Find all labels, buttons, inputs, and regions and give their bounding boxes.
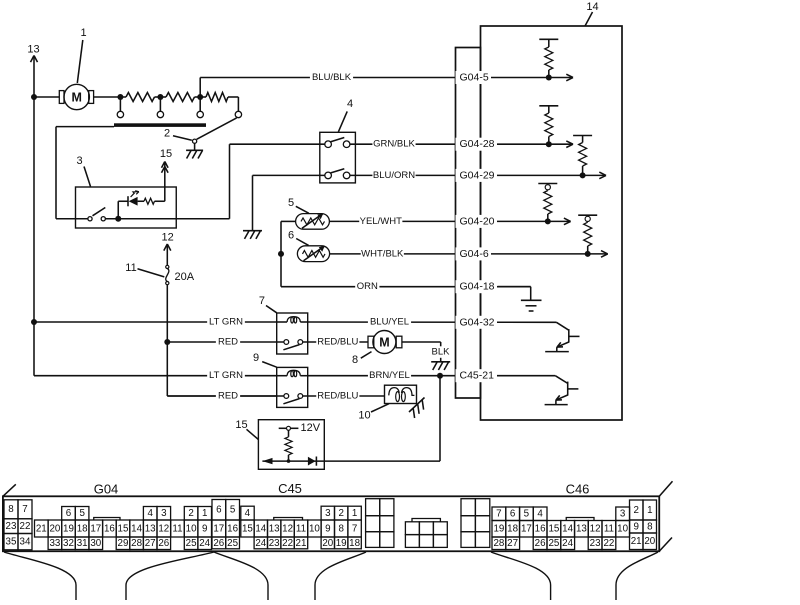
label 1 callout <box>77 40 83 83</box>
LED arrow <box>131 192 139 197</box>
svg-text:RED: RED <box>218 337 238 348</box>
label 9 callout <box>262 362 277 368</box>
junction + arrow (G04-6) <box>585 251 591 257</box>
wire RED/BLU (to solenoid 10) <box>303 395 385 397</box>
svg-text:2: 2 <box>338 508 343 519</box>
svg-text:14: 14 <box>586 1 598 13</box>
svg-text:5: 5 <box>79 508 85 519</box>
switch 4a <box>325 141 332 148</box>
label 14 callout <box>585 12 593 26</box>
label GRN/BLK <box>372 138 415 150</box>
svg-text:15: 15 <box>235 419 247 431</box>
pull-up resistor with contact (G04-20) <box>538 183 557 185</box>
svg-text:16: 16 <box>104 523 115 534</box>
wire - module3 to feed 15 <box>155 200 165 202</box>
svg-text:1: 1 <box>80 27 86 39</box>
junction - module3 <box>115 216 121 222</box>
relay 9 coil <box>287 370 300 375</box>
svg-text:8: 8 <box>8 504 14 515</box>
svg-text:G04-29: G04-29 <box>460 169 495 181</box>
svg-text:2: 2 <box>164 128 170 140</box>
wire - motor1 to resistor chain <box>94 96 126 98</box>
pin label G04-5 <box>456 71 492 84</box>
pin label G04-32 <box>456 316 497 329</box>
tap terminal 1 <box>119 97 121 111</box>
label RED/BLU (upper) <box>316 336 359 348</box>
G04 pin block 8/7/23/22/35/34 <box>4 500 32 550</box>
svg-text:9: 9 <box>253 352 259 364</box>
svg-text:13: 13 <box>145 523 156 534</box>
switch in module 3 <box>88 217 92 221</box>
svg-text:12: 12 <box>161 232 173 244</box>
svg-text:1: 1 <box>352 508 357 519</box>
svg-text:17: 17 <box>90 523 101 534</box>
svg-text:11: 11 <box>125 262 136 274</box>
svg-text:G04-5: G04-5 <box>460 72 489 84</box>
svg-text:G04-28: G04-28 <box>460 138 495 150</box>
svg-text:25: 25 <box>186 538 197 549</box>
svg-text:14: 14 <box>255 523 266 534</box>
svg-text:32: 32 <box>63 538 74 549</box>
junction + arrow (G04-29) <box>580 172 586 178</box>
junction - thermistor 6 <box>278 251 284 257</box>
label ORN <box>355 281 379 293</box>
svg-text:14: 14 <box>131 523 142 534</box>
motor M1 (component 1) <box>64 84 89 109</box>
pin label G04-18 <box>456 280 497 293</box>
wire - left feed vertical <box>33 97 35 322</box>
harness curve C46-left <box>491 552 551 600</box>
wire RED/BLU (to motor 8) <box>303 341 368 343</box>
svg-text:4: 4 <box>537 509 543 520</box>
wire ORN <box>281 286 531 288</box>
selector wiper bar <box>114 123 206 127</box>
solenoid 10 coil <box>389 388 399 396</box>
svg-text:WHT/BLK: WHT/BLK <box>361 248 404 259</box>
svg-text:20: 20 <box>322 538 333 549</box>
connector strip box <box>456 48 481 399</box>
svg-text:7: 7 <box>22 504 27 515</box>
wire - common to thermistor 5 <box>281 220 296 222</box>
svg-text:22: 22 <box>20 521 31 532</box>
svg-text:4: 4 <box>347 98 353 110</box>
wire BLU/BLK <box>199 78 201 98</box>
wire LT GRN (relay7 coil) <box>34 321 277 323</box>
wire - module3 internal <box>105 218 176 220</box>
pull-up resistor with contact (G04-6) <box>578 214 597 216</box>
C45 key tab <box>274 518 303 521</box>
pull-up resistor (G04-29) <box>573 135 592 137</box>
svg-text:1: 1 <box>647 505 652 516</box>
svg-text:13: 13 <box>27 44 39 56</box>
label 6 callout <box>296 239 308 246</box>
svg-text:G04-18: G04-18 <box>460 281 495 293</box>
svg-text:31: 31 <box>77 538 88 549</box>
svg-text:11: 11 <box>604 524 614 535</box>
ground - switch 2 <box>194 143 196 150</box>
svg-text:8: 8 <box>647 521 653 532</box>
svg-text:6: 6 <box>510 509 516 520</box>
wire YEL/WHT <box>329 220 547 222</box>
svg-text:10: 10 <box>309 523 320 534</box>
power feed arrow 15 (module 3) <box>164 162 166 188</box>
svg-text:M: M <box>71 91 81 105</box>
connector face outer box <box>3 496 659 551</box>
wire WHT/BLK <box>330 253 588 255</box>
connector 3D corner bottom-right <box>659 538 672 552</box>
svg-text:20: 20 <box>49 523 60 534</box>
C45 pin row 15-7 <box>241 520 361 537</box>
wire - fuse output vertical <box>166 285 168 342</box>
wire - switch4b to ground <box>253 174 325 176</box>
svg-text:22: 22 <box>603 538 614 549</box>
fuse 11 <box>166 265 169 268</box>
svg-text:23: 23 <box>590 538 601 549</box>
relay 7 switch <box>284 340 289 345</box>
harness curve C46-right <box>616 552 658 600</box>
connector 3D corner top-right <box>659 481 672 496</box>
label BRN/YEL <box>368 370 411 382</box>
svg-text:C45-21: C45-21 <box>460 370 495 382</box>
ECU module box 14 <box>481 26 623 420</box>
ground - solenoid 10 (diagonal) <box>409 398 425 413</box>
svg-text:BLU/YEL: BLU/YEL <box>370 317 409 328</box>
svg-text:17: 17 <box>213 523 224 534</box>
wire - feed to motor1 <box>34 96 59 98</box>
resistor in module 3 <box>138 200 144 202</box>
ground - G04-18 (earth) <box>498 286 531 288</box>
junction - tap2 <box>157 94 163 100</box>
junction - tap3 <box>197 94 203 100</box>
C45 pin block 6/5/17/16/26/25 <box>212 500 240 549</box>
G04 pin row 6-1 <box>62 507 212 521</box>
svg-text:23: 23 <box>6 521 17 532</box>
ground - BLK <box>431 361 450 363</box>
switch 4b <box>325 172 332 179</box>
label 10 callout <box>371 404 389 412</box>
svg-text:13: 13 <box>269 523 280 534</box>
svg-text:BLU/BLK: BLU/BLK <box>312 72 352 83</box>
svg-text:BLK: BLK <box>432 347 451 358</box>
svg-text:3: 3 <box>161 508 167 519</box>
switch 2 blade <box>197 118 237 139</box>
pin label G04-6 <box>456 247 492 260</box>
relay 9 box <box>277 367 308 407</box>
svg-text:RED/BLU: RED/BLU <box>317 391 358 402</box>
svg-text:15: 15 <box>160 148 172 160</box>
svg-text:12V: 12V <box>301 422 321 434</box>
blank middle block key tab <box>412 519 440 522</box>
thermistor 5 (component 5) <box>296 214 330 230</box>
svg-text:10: 10 <box>617 524 628 535</box>
wire RED (relay9) <box>167 395 283 397</box>
svg-text:12: 12 <box>158 523 169 534</box>
svg-text:18: 18 <box>349 538 360 549</box>
svg-text:10: 10 <box>358 410 370 422</box>
wire - motor8 to BLK ground <box>402 341 441 343</box>
svg-text:35: 35 <box>6 537 17 548</box>
harness curve C45-left <box>214 552 268 600</box>
label YEL/WHT <box>359 216 402 228</box>
junction - BRN/YEL to diode box <box>437 373 443 379</box>
svg-text:6: 6 <box>66 508 72 519</box>
svg-text:30: 30 <box>90 538 101 549</box>
blank middle block <box>405 522 447 548</box>
svg-text:15: 15 <box>242 523 253 534</box>
svg-text:RED/BLU: RED/BLU <box>317 337 358 348</box>
svg-text:26: 26 <box>535 538 546 549</box>
label 3 callout <box>84 167 91 187</box>
svg-text:ORN: ORN <box>357 281 378 292</box>
motor M8 (component 8) <box>373 331 396 354</box>
svg-text:19: 19 <box>336 538 347 549</box>
svg-text:5: 5 <box>288 197 294 209</box>
C46 key tab <box>566 518 594 521</box>
wire - chain segments <box>155 96 167 98</box>
svg-text:22: 22 <box>282 538 293 549</box>
LED indicator in module 3 <box>117 201 119 219</box>
svg-text:28: 28 <box>131 538 142 549</box>
svg-text:25: 25 <box>548 538 559 549</box>
svg-text:15: 15 <box>118 523 129 534</box>
wire - box15 output <box>262 460 440 462</box>
svg-text:26: 26 <box>213 538 224 549</box>
svg-text:14: 14 <box>562 524 573 535</box>
label 2 callout <box>173 136 192 141</box>
svg-text:RED: RED <box>218 391 238 402</box>
svg-text:LT GRN: LT GRN <box>209 317 243 328</box>
svg-text:6: 6 <box>216 505 222 516</box>
blank pin block B <box>461 499 490 548</box>
C46 pin row 7/6/5/4/3 <box>492 507 630 521</box>
wire RED (relay7) <box>167 341 283 343</box>
svg-text:1: 1 <box>202 508 207 519</box>
label RED (lower) <box>216 390 240 402</box>
relay 9 switch <box>284 394 289 399</box>
svg-text:10: 10 <box>186 523 197 534</box>
pull-up resistor (G04-5) <box>539 38 558 40</box>
connector 3D corner top-left <box>3 484 16 496</box>
svg-text:21: 21 <box>296 538 307 549</box>
wire LT GRN (relay9 coil) <box>34 375 277 377</box>
diode box 15 <box>258 420 324 470</box>
C45 pin row 4/3/2/1 <box>241 506 361 520</box>
label WHT/BLK <box>361 248 404 260</box>
svg-text:G04-20: G04-20 <box>460 215 495 227</box>
solenoid 10 box <box>385 385 417 403</box>
wire BLU/YEL <box>308 321 557 323</box>
junction + arrow (G04-5) <box>546 75 552 81</box>
svg-text:33: 33 <box>49 538 60 549</box>
harness curve C45-right <box>315 552 366 600</box>
pin label G04-20 <box>456 215 497 228</box>
svg-text:11: 11 <box>296 523 306 534</box>
12V source in box 15 <box>279 427 287 429</box>
svg-text:BLU/ORN: BLU/ORN <box>373 170 415 181</box>
resistor chain R-a <box>126 93 155 102</box>
svg-text:26: 26 <box>158 538 169 549</box>
ground - switch 4b <box>243 230 262 232</box>
svg-text:15: 15 <box>548 524 559 535</box>
transistor Q1 (G04-32) <box>556 322 568 330</box>
label BLU/YEL <box>368 316 411 328</box>
svg-text:34: 34 <box>20 537 31 548</box>
svg-text:9: 9 <box>325 523 330 534</box>
svg-text:7: 7 <box>496 509 501 520</box>
label BLU/ORN <box>372 170 415 182</box>
C46 pin block 2/1/9/8/21/20 <box>630 500 657 550</box>
power feed arrow 12 <box>166 244 168 265</box>
module 3 box <box>76 187 177 228</box>
label 7 callout <box>266 306 277 313</box>
label LT GRN (lower) <box>207 370 245 382</box>
svg-text:29: 29 <box>118 538 129 549</box>
svg-text:19: 19 <box>493 524 504 535</box>
svg-text:6: 6 <box>288 229 294 241</box>
svg-text:M: M <box>379 336 389 350</box>
tap terminal 4 <box>237 97 239 111</box>
svg-text:16: 16 <box>227 523 238 534</box>
svg-text:24: 24 <box>562 538 573 549</box>
svg-text:9: 9 <box>202 523 207 534</box>
label 15 callout (diode box) <box>247 429 259 439</box>
label 5 callout <box>296 206 309 213</box>
junction - feed/relay7 <box>31 319 37 325</box>
relay 7 box <box>277 313 308 354</box>
resistor chain R-b <box>166 93 195 102</box>
svg-text:G04-6: G04-6 <box>460 248 489 260</box>
svg-text:21: 21 <box>631 536 642 547</box>
junction - tap1 <box>117 94 123 100</box>
svg-text:5: 5 <box>230 505 236 516</box>
svg-text:27: 27 <box>507 538 518 549</box>
svg-text:3: 3 <box>620 509 626 520</box>
svg-text:4: 4 <box>245 508 251 519</box>
pin label G04-28 <box>456 138 497 151</box>
wire BLU/ORN <box>350 174 583 176</box>
svg-text:G04: G04 <box>94 482 119 497</box>
svg-text:28: 28 <box>493 538 504 549</box>
svg-text:20: 20 <box>644 536 655 547</box>
resistor in box 15 <box>288 430 290 437</box>
wire - module3 to switch4 <box>229 144 231 219</box>
svg-text:3: 3 <box>76 155 82 167</box>
C46 pin row 28-22 <box>492 537 616 550</box>
relay 7 coil <box>287 317 300 322</box>
C45 pin row 24-18 <box>254 537 361 549</box>
wire - wiper to module 3 <box>56 126 114 128</box>
tap terminal 2 <box>159 97 161 111</box>
arrow left in box 15 <box>262 458 272 464</box>
svg-text:16: 16 <box>535 524 546 535</box>
svg-text:18: 18 <box>77 523 88 534</box>
svg-text:C45: C45 <box>278 481 302 496</box>
svg-text:5: 5 <box>524 509 530 520</box>
svg-text:LT GRN: LT GRN <box>209 370 243 381</box>
svg-text:11: 11 <box>172 523 182 534</box>
svg-text:23: 23 <box>269 538 280 549</box>
label 11 callout <box>138 269 165 277</box>
blank pin block A <box>366 499 394 548</box>
transistor Q2 (C45-21) <box>555 376 567 384</box>
G04 pin row 21-9 <box>35 520 212 537</box>
svg-text:25: 25 <box>227 538 238 549</box>
svg-text:18: 18 <box>507 524 518 535</box>
label BLU/BLK <box>310 72 353 84</box>
power feed arrow 13 <box>33 56 35 97</box>
svg-text:YEL/WHT: YEL/WHT <box>360 216 402 227</box>
svg-text:2: 2 <box>188 508 193 519</box>
svg-text:12: 12 <box>282 523 293 534</box>
harness curve G04-right <box>126 552 214 600</box>
svg-text:BRN/YEL: BRN/YEL <box>369 370 410 381</box>
label LT GRN (upper) <box>207 316 245 328</box>
svg-text:20A: 20A <box>175 271 195 283</box>
pin label G04-29 <box>456 169 497 182</box>
svg-text:3: 3 <box>325 508 331 519</box>
svg-text:17: 17 <box>521 524 532 535</box>
junction - feed/motor1 <box>31 94 37 100</box>
svg-text:8: 8 <box>352 354 358 366</box>
C46 pin row 19-10 <box>492 521 630 538</box>
label 4 callout <box>338 111 347 131</box>
svg-text:9: 9 <box>633 521 638 532</box>
label 8 callout <box>361 352 372 359</box>
svg-text:7: 7 <box>259 295 265 307</box>
svg-text:24: 24 <box>255 538 266 549</box>
wire BRN/YEL <box>308 375 556 377</box>
resistor chain R-c <box>206 93 228 102</box>
label RED (upper) <box>216 336 240 348</box>
svg-text:24: 24 <box>199 538 210 549</box>
pull-up resistor (G04-28) <box>539 105 558 107</box>
junction + arrow (G04-20) <box>545 218 551 224</box>
svg-text:C46: C46 <box>566 482 590 497</box>
svg-text:12: 12 <box>590 524 601 535</box>
G04 pin row 33-24 <box>48 537 211 550</box>
svg-text:19: 19 <box>63 523 74 534</box>
G04 key tab <box>94 518 120 521</box>
svg-text:G04-32: G04-32 <box>460 316 495 328</box>
svg-text:7: 7 <box>352 523 357 534</box>
svg-text:27: 27 <box>145 538 156 549</box>
pin label C45-21 <box>456 369 497 382</box>
wire GRN/BLK <box>350 143 549 145</box>
svg-text:4: 4 <box>147 508 153 519</box>
switch module 4 box <box>320 132 356 183</box>
svg-text:8: 8 <box>338 523 344 534</box>
svg-text:13: 13 <box>576 524 587 535</box>
svg-text:21: 21 <box>36 523 47 534</box>
harness curve G04-left <box>4 552 76 600</box>
junction - fuse/relay7 <box>164 339 170 345</box>
diode in box 15 <box>308 457 316 466</box>
svg-text:GRN/BLK: GRN/BLK <box>373 139 415 150</box>
svg-text:2: 2 <box>633 505 638 516</box>
label RED/BLU (lower) <box>316 390 359 402</box>
tap terminal 3 <box>199 97 201 111</box>
junction + arrow (G04-28) <box>546 141 552 147</box>
thermistor 6 (component 6) <box>297 246 329 262</box>
